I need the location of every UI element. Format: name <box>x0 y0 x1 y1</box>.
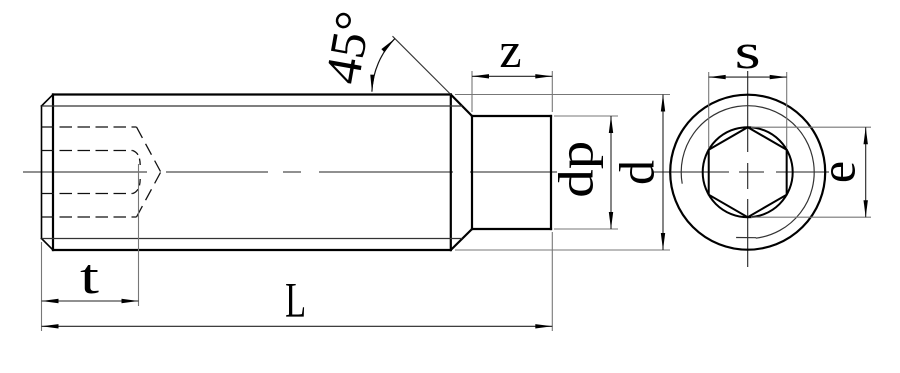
dimension L line <box>42 325 553 327</box>
left chamfer tangent line <box>52 95 54 251</box>
thread crest thin lines <box>42 106 463 239</box>
end view outer circle <box>670 95 825 250</box>
dimension L extension line right <box>551 232 553 331</box>
centerline main axis <box>23 171 829 173</box>
hex socket hexagon <box>709 127 787 217</box>
hex socket circumscribed circle <box>703 127 793 217</box>
screw body outline <box>53 95 451 251</box>
svg-text:e: e <box>809 161 865 183</box>
socket bottom hidden curves <box>133 151 141 194</box>
svg-text:dp: dp <box>548 141 604 198</box>
svg-text:d: d <box>609 160 665 185</box>
dimension d line <box>662 95 664 251</box>
chamfer circle chord segment <box>736 237 756 239</box>
dimension dp line <box>610 116 612 229</box>
dog point <box>472 116 551 229</box>
svg-text:t: t <box>80 248 99 304</box>
45-degree dimension arc <box>372 39 395 92</box>
svg-text:s: s <box>735 23 761 79</box>
dimension dp extension lines <box>554 116 618 229</box>
svg-text:z: z <box>499 22 521 78</box>
dimension z extension lines <box>472 71 552 112</box>
svg-text:45°: 45° <box>314 7 382 88</box>
dimension z line <box>472 75 552 77</box>
drill point hidden cone <box>137 127 161 217</box>
dimension t line <box>42 300 139 302</box>
dimension e line <box>865 127 867 217</box>
hex socket hidden lines <box>42 127 137 217</box>
right 45-degree chamfer edges <box>451 95 472 251</box>
dimension s extension lines <box>709 72 787 148</box>
dimension d extension lines <box>455 95 670 251</box>
svg-text:L: L <box>285 272 306 328</box>
end view chamfer circle arc <box>681 106 814 239</box>
left chamfer edges <box>42 95 54 251</box>
dimension t extension lines <box>42 164 139 331</box>
45-degree chamfer leader line <box>393 36 451 94</box>
left end face <box>41 106 43 239</box>
centerline end-view vertical <box>747 71 749 267</box>
dimension e extension lines <box>751 127 871 217</box>
dimension s line <box>709 76 787 78</box>
